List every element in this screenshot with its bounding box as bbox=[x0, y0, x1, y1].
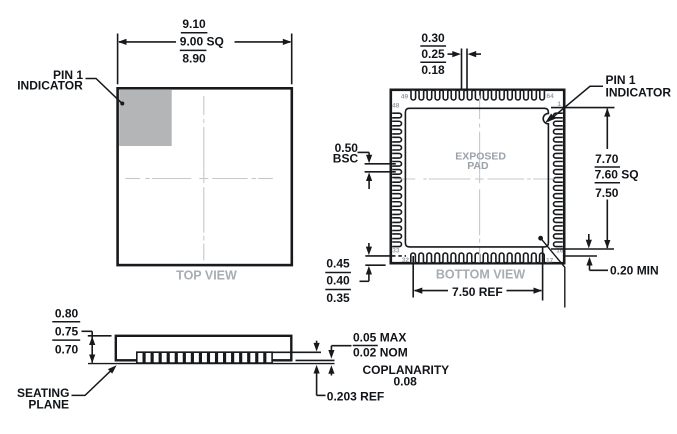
svg-text:7.70: 7.70 bbox=[595, 152, 619, 166]
svg-text:TOP VIEW: TOP VIEW bbox=[176, 269, 237, 283]
svg-text:0.35: 0.35 bbox=[326, 291, 350, 305]
svg-text:0.20 MIN: 0.20 MIN bbox=[610, 264, 659, 278]
svg-text:INDICATOR: INDICATOR bbox=[17, 79, 83, 93]
svg-text:32: 32 bbox=[402, 257, 410, 264]
svg-text:0.08: 0.08 bbox=[394, 375, 418, 389]
svg-text:0.45: 0.45 bbox=[326, 257, 350, 271]
svg-text:BOTTOM VIEW: BOTTOM VIEW bbox=[436, 267, 526, 281]
svg-text:9.00 SQ: 9.00 SQ bbox=[180, 34, 224, 48]
svg-text:49: 49 bbox=[401, 94, 409, 101]
svg-text:0.25: 0.25 bbox=[421, 47, 445, 61]
svg-text:64: 64 bbox=[547, 93, 555, 100]
svg-text:33: 33 bbox=[392, 248, 400, 255]
svg-text:9.10: 9.10 bbox=[182, 17, 206, 31]
svg-text:48: 48 bbox=[392, 103, 400, 110]
svg-text:0.70: 0.70 bbox=[55, 343, 79, 357]
svg-text:7.50: 7.50 bbox=[595, 186, 619, 200]
svg-text:0.18: 0.18 bbox=[421, 63, 445, 77]
svg-text:0.75: 0.75 bbox=[55, 324, 79, 338]
svg-text:7.60 SQ: 7.60 SQ bbox=[595, 167, 639, 181]
svg-text:INDICATOR: INDICATOR bbox=[606, 85, 672, 99]
svg-text:0.02 NOM: 0.02 NOM bbox=[353, 345, 408, 359]
svg-text:7.50 REF: 7.50 REF bbox=[452, 285, 503, 299]
svg-text:8.90: 8.90 bbox=[182, 51, 206, 65]
svg-text:0.203 REF: 0.203 REF bbox=[327, 389, 384, 403]
svg-text:17: 17 bbox=[546, 257, 554, 264]
svg-text:0.80: 0.80 bbox=[55, 307, 79, 321]
svg-text:BSC: BSC bbox=[333, 151, 359, 165]
svg-text:PLANE: PLANE bbox=[28, 398, 69, 412]
svg-text:0.30: 0.30 bbox=[421, 31, 445, 45]
svg-text:0.40: 0.40 bbox=[326, 273, 350, 287]
svg-text:PAD: PAD bbox=[467, 160, 489, 172]
svg-text:0.05 MAX: 0.05 MAX bbox=[353, 330, 406, 344]
